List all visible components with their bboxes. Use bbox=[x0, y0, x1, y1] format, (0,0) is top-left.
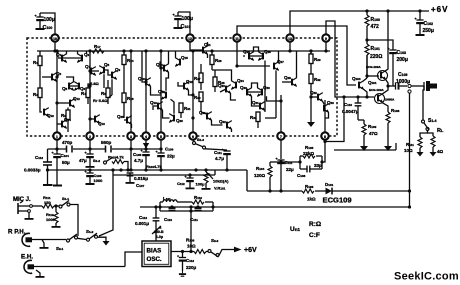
svg-text:220μ: 220μ bbox=[186, 265, 197, 270]
node output bbox=[386, 84, 389, 87]
transistor Q27 bbox=[274, 51, 284, 71]
svg-text:R1: R1 bbox=[33, 60, 38, 65]
resistor R25 bbox=[122, 93, 134, 103]
svg-text:S1-2: S1-2 bbox=[86, 229, 94, 234]
resistor R2 bbox=[33, 88, 42, 98]
transistor Q1 bbox=[56, 52, 67, 63]
svg-text:R1034.7k: R1034.7k bbox=[146, 164, 162, 169]
wire pin8 riser to network bbox=[322, 140, 325, 162]
wire jack sleeve to S1-4 bbox=[423, 86, 424, 120]
svg-text:V.R101: V.R101 bbox=[214, 186, 226, 191]
transistor Q29 bbox=[240, 85, 252, 97]
svg-text:S1-3: S1-3 bbox=[197, 137, 204, 142]
E.H. jack bbox=[24, 260, 125, 273]
pin 13 top bbox=[286, 34, 293, 41]
pin 2 bottom bbox=[86, 132, 93, 139]
capacitor C110 tank bbox=[164, 208, 176, 222]
transistor Q24 bbox=[231, 78, 244, 90]
wire pin3 riser internal bbox=[130, 51, 132, 132]
svg-text:Q1: Q1 bbox=[56, 52, 62, 57]
svg-text:+6V: +6V bbox=[244, 247, 257, 254]
capacitor C105b 4.7u pin4 bbox=[133, 143, 150, 170]
svg-text:5.6Ω: 5.6Ω bbox=[90, 81, 100, 86]
resistor R33 bbox=[250, 112, 260, 128]
wire pin4 riser internal bbox=[145, 51, 147, 132]
resistor RL 4ohm bbox=[430, 128, 444, 157]
svg-text:1kΩ: 1kΩ bbox=[307, 197, 316, 202]
resistor R103 1k bbox=[85, 170, 104, 185]
switch S1-2b bbox=[77, 229, 97, 241]
svg-text:220Ω: 220Ω bbox=[370, 54, 382, 60]
wire Q5 collector up bbox=[66, 77, 74, 82]
pin 5 bottom bbox=[157, 132, 164, 139]
capacitor 560p series bbox=[101, 140, 112, 153]
BIAS OSC box bbox=[142, 241, 171, 267]
transistor Q19 bbox=[150, 100, 163, 111]
svg-text:Q25: Q25 bbox=[243, 49, 250, 54]
wire pin11 riser internal bbox=[237, 42, 270, 66]
svg-text:R108: R108 bbox=[391, 108, 400, 113]
svg-text:22μ: 22μ bbox=[286, 167, 294, 172]
resistor R32 bbox=[309, 64, 321, 123]
label Un1 units bbox=[290, 221, 321, 239]
svg-text:R5: R5 bbox=[101, 91, 106, 96]
ground internal bbox=[307, 122, 315, 127]
svg-text:1: 1 bbox=[56, 135, 58, 139]
transistor Q5 bbox=[62, 82, 74, 91]
pin 6 bottom bbox=[189, 132, 196, 139]
transistor Q102 bbox=[369, 86, 395, 112]
wire jack contact down to bus bbox=[409, 93, 411, 191]
svg-text:100μ: 100μ bbox=[182, 16, 193, 22]
transistor Q28 bbox=[282, 51, 297, 87]
svg-text:0.015μ: 0.015μ bbox=[134, 176, 148, 181]
pin 4 bottom bbox=[142, 132, 149, 139]
capacitor C107 0.015u bbox=[126, 173, 149, 188]
wire top cap2 to pin 12 bbox=[178, 12, 190, 38]
resistor R111 150 bbox=[32, 195, 59, 208]
node rail/Q101 collector bbox=[386, 9, 389, 12]
resistor R8 bbox=[61, 108, 70, 133]
transistor Q35 bbox=[117, 114, 132, 128]
wire row1 y149 bbox=[48, 148, 67, 150]
resistor R108 10ohm horizontal bbox=[194, 250, 206, 254]
wire pin8 loop to output base bbox=[325, 97, 344, 142]
node rail/C102 bbox=[418, 9, 421, 12]
switch S1-3 bbox=[193, 137, 206, 149]
svg-text:Q31: Q31 bbox=[252, 100, 259, 105]
node risers junctions bbox=[55, 64, 312, 119]
svg-text:0.0033μ: 0.0033μ bbox=[24, 168, 41, 173]
pin 7 bottom bbox=[277, 132, 284, 139]
transistor Q11 bbox=[190, 42, 211, 58]
transistor Q12 bbox=[57, 96, 80, 108]
svg-text:R31: R31 bbox=[184, 106, 191, 111]
wire Q29 Q30 pair bbox=[247, 91, 262, 93]
pin 10 top bbox=[51, 34, 58, 41]
svg-text:11: 11 bbox=[235, 37, 239, 41]
wire pin13 riser internal bbox=[289, 42, 291, 51]
wire pin7 riser internal bbox=[280, 95, 282, 132]
switch S2-2 bbox=[208, 238, 219, 257]
svg-text:L101: L101 bbox=[163, 196, 171, 201]
parallel R105 22k C 33p bbox=[281, 156, 322, 169]
resistor R107b 4.7k on row2 bbox=[146, 164, 162, 169]
transistor Q3 bbox=[42, 71, 62, 82]
wire mid-right links bbox=[220, 89, 226, 92]
svg-text:ECG-109A: ECG-109A bbox=[369, 88, 385, 92]
svg-text:C106: C106 bbox=[165, 147, 174, 152]
wire input select riser bbox=[99, 175, 113, 236]
svg-text:C110: C110 bbox=[164, 217, 172, 222]
svg-text:R32: R32 bbox=[314, 77, 321, 82]
svg-text:Q13: Q13 bbox=[98, 121, 105, 126]
wire row2 to signal bus bbox=[246, 170, 248, 191]
svg-text:C105: C105 bbox=[133, 152, 142, 157]
svg-text:10kΩ(A): 10kΩ(A) bbox=[213, 179, 229, 184]
wire left branch bbox=[39, 51, 41, 56]
wire top cap1 to pin 10 bbox=[40, 13, 55, 38]
svg-text:R104: R104 bbox=[256, 166, 265, 171]
wire mid cluster links bbox=[160, 62, 164, 68]
svg-text:C112: C112 bbox=[139, 215, 147, 220]
transistor Q25 bbox=[243, 49, 254, 61]
svg-text:150: 150 bbox=[44, 200, 51, 205]
resistor R102 4.7k bbox=[108, 155, 130, 172]
svg-text:Q8: Q8 bbox=[104, 62, 110, 67]
resistor R104 120ohm bbox=[254, 162, 272, 191]
pin 9 top bbox=[322, 34, 329, 41]
node Q3 emitter bbox=[56, 80, 59, 83]
svg-text:C111: C111 bbox=[214, 150, 222, 155]
transistor Q8 bbox=[99, 62, 110, 75]
wire R24 R25 riser bbox=[123, 51, 125, 55]
transistor Q23 bbox=[218, 83, 231, 94]
svg-text:R4: R4 bbox=[81, 91, 86, 96]
svg-text:R27: R27 bbox=[194, 76, 201, 81]
svg-text:S2-1: S2-1 bbox=[56, 246, 64, 251]
svg-text:Q24: Q24 bbox=[237, 78, 244, 83]
resistor R28 bbox=[213, 70, 225, 92]
svg-text:R110: R110 bbox=[194, 195, 202, 200]
capacitor C113 0.0033u bbox=[24, 149, 53, 186]
wire BIAS right to node bbox=[171, 251, 194, 253]
svg-text:Q22: Q22 bbox=[219, 119, 226, 124]
wire pin9 riser internal bbox=[325, 42, 327, 51]
capacitor C113b 220u bbox=[177, 252, 197, 277]
resistor R24 bbox=[122, 55, 134, 65]
transistor Q17 bbox=[158, 89, 166, 100]
pin 3 bottom bbox=[127, 132, 134, 139]
svg-text:Q3: Q3 bbox=[56, 71, 62, 76]
svg-text:Q101: Q101 bbox=[368, 80, 377, 85]
wire +6V rail bbox=[290, 11, 429, 38]
capacitor C111c tank bbox=[190, 208, 202, 222]
resistor R112 1000 bbox=[46, 204, 61, 227]
svg-text:472: 472 bbox=[371, 24, 380, 30]
svg-text:10Ω: 10Ω bbox=[187, 244, 196, 249]
pin 8 bottom bbox=[321, 132, 328, 139]
ground rail under output bbox=[334, 149, 396, 151]
resistor R4 bbox=[81, 88, 90, 98]
svg-text:Q35: Q35 bbox=[117, 114, 124, 119]
ground MIC bbox=[25, 212, 34, 219]
wire Q1 Q2 bases bbox=[62, 57, 82, 59]
svg-text:Q5: Q5 bbox=[62, 86, 68, 91]
resistor R101 220ohm bbox=[365, 26, 382, 76]
svg-text:R26: R26 bbox=[215, 58, 222, 63]
capacitor C108b 33p bbox=[297, 163, 322, 178]
svg-text:ECG109: ECG109 bbox=[323, 196, 352, 205]
wire row2 y170 bbox=[48, 169, 248, 171]
svg-text:Q9: Q9 bbox=[115, 67, 121, 72]
svg-text:Q18: Q18 bbox=[186, 79, 193, 84]
resistor R17 on rail bbox=[92, 44, 104, 53]
svg-text:10: 10 bbox=[53, 37, 57, 41]
IC boundary dashed box bbox=[27, 38, 337, 136]
svg-text:RL: RL bbox=[437, 128, 444, 134]
svg-text:250-B: 250-B bbox=[154, 230, 164, 234]
capacitor C109b 4.7u after S1-3 bbox=[205, 149, 231, 170]
volume pot VR101 10k(A) bbox=[202, 170, 230, 191]
svg-text:4.7μ: 4.7μ bbox=[215, 156, 224, 161]
MIC jack bbox=[18, 201, 32, 214]
svg-text:50μ: 50μ bbox=[62, 160, 70, 165]
svg-text:Q20: Q20 bbox=[176, 118, 183, 123]
capacitor C104 50u bbox=[52, 149, 71, 187]
svg-text:C112: C112 bbox=[177, 181, 185, 186]
svg-text:C113: C113 bbox=[186, 258, 194, 263]
svg-text:13: 13 bbox=[288, 37, 292, 41]
wire pin11 to driver base bbox=[237, 26, 356, 85]
transistor Q20 bbox=[169, 114, 183, 123]
svg-text:Q15: Q15 bbox=[181, 55, 188, 60]
svg-text:+6V: +6V bbox=[431, 5, 448, 14]
svg-text:7: 7 bbox=[280, 135, 282, 139]
switch S1-2a bbox=[93, 158, 113, 165]
wire pin10 riser bbox=[54, 42, 56, 51]
resistor R31 bbox=[179, 103, 191, 118]
svg-text:R7 5.6Ω: R7 5.6Ω bbox=[93, 98, 108, 103]
wire pin8 riser internal bbox=[324, 100, 326, 132]
ground P.H. bbox=[40, 240, 49, 249]
svg-text:R33: R33 bbox=[250, 115, 257, 120]
svg-text:33p: 33p bbox=[314, 163, 322, 168]
capacitor C102 250u bbox=[415, 11, 434, 36]
svg-text:R105: R105 bbox=[305, 145, 314, 150]
transistor Q7 bbox=[85, 64, 96, 76]
transistor Q14 bbox=[156, 51, 169, 73]
svg-text:C101: C101 bbox=[181, 24, 191, 30]
ground R109 bbox=[360, 146, 368, 151]
transistor Q33 bbox=[323, 100, 335, 118]
wire pin7 riser down bbox=[280, 140, 282, 159]
svg-text:E.H.: E.H. bbox=[21, 254, 33, 261]
wire pin5 riser internal bbox=[160, 51, 162, 132]
svg-text:Q30: Q30 bbox=[263, 85, 270, 90]
transistor Q31 bbox=[252, 96, 266, 110]
wire R1 to R2 bbox=[39, 66, 41, 89]
wire R4 R5 bottoms bbox=[87, 98, 89, 105]
svg-text:Q32: Q32 bbox=[310, 90, 317, 95]
transistor Q103 driver bbox=[352, 76, 367, 97]
svg-text:SeekIC.com: SeekIC.com bbox=[394, 271, 459, 283]
svg-text:3: 3 bbox=[130, 135, 132, 139]
wire S1-1 to S2-1 bbox=[70, 205, 78, 237]
wire Q25 Q26 pair bbox=[249, 55, 263, 57]
svg-text:200μ: 200μ bbox=[397, 57, 408, 63]
transistor Q22 bbox=[219, 119, 232, 130]
resistor R109 47ohm bbox=[358, 120, 378, 150]
svg-text:0.001μ: 0.001μ bbox=[135, 221, 149, 226]
wire pin risers to row1 bbox=[56, 140, 58, 149]
svg-text:Q28: Q28 bbox=[284, 75, 291, 80]
svg-text:100μ: 100μ bbox=[44, 17, 55, 23]
svg-text:S1-1: S1-1 bbox=[62, 196, 69, 201]
svg-text:5: 5 bbox=[160, 135, 162, 139]
resistor R105 22k bbox=[303, 145, 315, 158]
svg-text:1000: 1000 bbox=[94, 178, 104, 183]
resistor R100 472 bbox=[365, 11, 380, 30]
wire E.H. to BIAS bbox=[125, 252, 142, 267]
wire internal top rail bbox=[37, 50, 330, 52]
wire driver collector node to upper base bbox=[366, 55, 368, 78]
svg-text:47μ: 47μ bbox=[79, 158, 87, 163]
switch S1-4 bbox=[422, 118, 437, 131]
svg-text:C100: C100 bbox=[43, 25, 53, 31]
pin 11 top bbox=[233, 34, 240, 41]
svg-text:22kΩ: 22kΩ bbox=[303, 151, 315, 156]
wire Q8 Q9 link bbox=[104, 70, 112, 75]
resistor R26 bbox=[210, 51, 222, 70]
switch S2-1 bbox=[56, 234, 78, 251]
wire Q1 Q2 collector loop bbox=[57, 51, 59, 54]
svg-text:Q19: Q19 bbox=[150, 100, 157, 105]
resistor R107 tank bbox=[192, 195, 204, 204]
svg-text:OSC.: OSC. bbox=[147, 256, 162, 263]
transistor Q32 bbox=[310, 90, 323, 102]
resistor R27 bbox=[194, 64, 203, 90]
wire tank top bbox=[160, 201, 163, 203]
resistor R110 10ohm bbox=[404, 137, 424, 157]
wire pin2 riser internal bbox=[89, 51, 91, 132]
svg-text:R111: R111 bbox=[406, 142, 414, 147]
svg-text:Q103: Q103 bbox=[352, 76, 361, 81]
trimmer chain bus to BIAS bbox=[135, 207, 164, 241]
svg-text:Q23: Q23 bbox=[218, 83, 225, 88]
transistor Q6 bbox=[74, 82, 86, 91]
resistor R30 bbox=[194, 92, 203, 112]
svg-text:Q29: Q29 bbox=[240, 85, 247, 90]
transistor Q26 bbox=[258, 49, 271, 61]
transistor Q13 bbox=[90, 115, 105, 126]
svg-text:1.0μ: 1.0μ bbox=[156, 235, 163, 239]
svg-text:1000μ: 1000μ bbox=[396, 79, 410, 85]
svg-text:R109: R109 bbox=[368, 124, 377, 129]
capacitor C100 100u bbox=[35, 13, 55, 31]
svg-text:12: 12 bbox=[188, 37, 192, 41]
svg-text:C113: C113 bbox=[35, 155, 43, 160]
svg-text:4: 4 bbox=[145, 135, 147, 139]
svg-text:Q12: Q12 bbox=[73, 96, 80, 101]
resistor R112b 10ohm feed bbox=[186, 207, 196, 252]
wire R2 down bbox=[40, 98, 42, 113]
wire Q7 Q8 link bbox=[91, 70, 99, 72]
wire row3 y175 bbox=[113, 174, 215, 176]
svg-text:R:Ω: R:Ω bbox=[309, 221, 321, 228]
svg-text:S2-2: S2-2 bbox=[211, 238, 219, 243]
svg-text:47Ω: 47Ω bbox=[369, 131, 378, 136]
svg-text:4Ω: 4Ω bbox=[437, 149, 444, 154]
resistor R5 bbox=[101, 88, 110, 98]
svg-text:R1024.7k: R1024.7k bbox=[108, 155, 124, 160]
svg-text:R108: R108 bbox=[186, 238, 195, 243]
svg-text:Q17: Q17 bbox=[158, 89, 165, 94]
svg-text:C110: C110 bbox=[344, 102, 352, 107]
ground output emitter bbox=[384, 143, 396, 151]
transistor Q10 bbox=[44, 108, 54, 118]
svg-text:S1-4: S1-4 bbox=[428, 118, 436, 124]
svg-text:10Ω: 10Ω bbox=[404, 148, 413, 153]
svg-text:2: 2 bbox=[89, 135, 91, 139]
svg-text:120Ω: 120Ω bbox=[254, 173, 266, 178]
capacitor C111 22u bbox=[276, 158, 295, 191]
diode D101 bbox=[325, 182, 334, 194]
svg-text:C108: C108 bbox=[297, 173, 306, 178]
svg-text:R30: R30 bbox=[194, 95, 201, 100]
resistor R29 bbox=[309, 51, 321, 64]
wire pin1 riser internal bbox=[56, 51, 58, 132]
svg-text:250μ: 250μ bbox=[423, 28, 434, 34]
svg-text:470p: 470p bbox=[62, 140, 73, 145]
svg-text:R P.H.: R P.H. bbox=[8, 229, 26, 236]
transistor Q18 bbox=[184, 79, 193, 91]
wire pin14 feedback to output base bbox=[326, 21, 374, 97]
transistor Q30 bbox=[257, 85, 270, 97]
wire pin6 riser internal bbox=[192, 51, 194, 132]
svg-text:S1-2: S1-2 bbox=[93, 158, 100, 163]
wire left cluster extra verticals bbox=[103, 74, 105, 88]
wire R4 R5 tops bbox=[88, 84, 91, 88]
transistor Q16 bbox=[138, 76, 151, 87]
svg-text:C:F: C:F bbox=[309, 232, 320, 239]
svg-text:Q26: Q26 bbox=[264, 49, 271, 54]
svg-text:Q33: Q33 bbox=[327, 100, 334, 105]
svg-text:560p: 560p bbox=[101, 140, 112, 145]
svg-text:Un1: Un1 bbox=[290, 226, 300, 233]
svg-text:C103: C103 bbox=[397, 50, 407, 56]
svg-text:1000: 1000 bbox=[46, 217, 56, 222]
svg-text:R100: R100 bbox=[371, 17, 381, 23]
svg-text:8: 8 bbox=[324, 135, 326, 139]
transistor Q34 bbox=[57, 117, 71, 129]
wire arrow to +6V bbox=[219, 247, 257, 256]
capacitor C106 22u pin5 bbox=[156, 147, 176, 171]
svg-text:ECG-109A: ECG-109A bbox=[366, 65, 382, 69]
resistor R106 1k bbox=[302, 184, 316, 202]
svg-text:4.7μ: 4.7μ bbox=[134, 158, 143, 163]
wire tank bottom y211 bbox=[160, 210, 213, 212]
svg-text:1N60A: 1N60A bbox=[385, 98, 395, 102]
pin 12 top bbox=[186, 34, 193, 41]
svg-text:R29: R29 bbox=[314, 57, 321, 62]
transistor Q101 bbox=[366, 11, 388, 86]
svg-text:R17: R17 bbox=[94, 44, 101, 49]
svg-text:Q10: Q10 bbox=[47, 113, 54, 118]
emitter resistor R108 bbox=[386, 108, 400, 150]
svg-text:22μ: 22μ bbox=[167, 154, 175, 159]
wire S1-2 to ground stub bbox=[97, 237, 109, 245]
